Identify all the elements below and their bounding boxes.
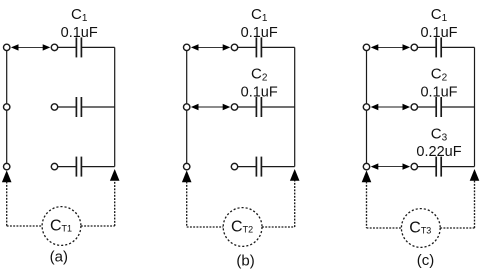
svg-text:0.22uF: 0.22uF	[416, 144, 461, 160]
svg-text:0.1uF: 0.1uF	[241, 84, 278, 100]
svg-text:C1: C1	[251, 6, 268, 24]
svg-text:C3: C3	[431, 125, 448, 143]
svg-text:C2: C2	[431, 66, 448, 84]
svg-text:0.1uF: 0.1uF	[241, 25, 278, 41]
svg-text:0.1uF: 0.1uF	[420, 84, 457, 100]
svg-text:0.1uF: 0.1uF	[420, 25, 457, 41]
svg-text:C1: C1	[431, 6, 448, 24]
svg-text:CT2: CT2	[231, 218, 253, 235]
svg-text:(a): (a)	[50, 248, 68, 265]
svg-text:0.1uF: 0.1uF	[61, 25, 98, 41]
svg-text:CT3: CT3	[409, 219, 431, 236]
svg-text:(b): (b)	[236, 253, 254, 270]
svg-text:C2: C2	[251, 66, 268, 84]
svg-text:C1: C1	[71, 6, 88, 24]
svg-text:CT1: CT1	[50, 217, 72, 234]
svg-text:(c): (c)	[417, 252, 435, 269]
